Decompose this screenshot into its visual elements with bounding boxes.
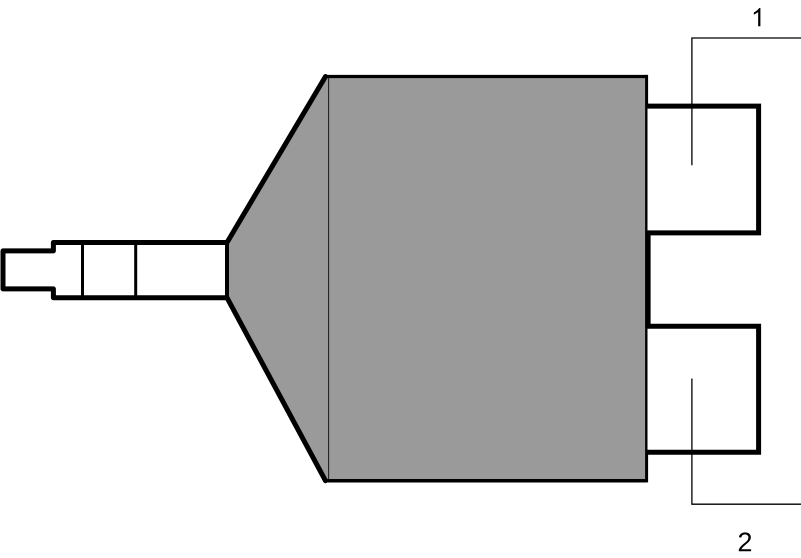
body right edge bbox=[645, 75, 648, 483]
plug divider ring 1 bbox=[81, 243, 84, 298]
body left edge (cone base) bbox=[225, 243, 229, 298]
notch edge between sockets bbox=[645, 231, 650, 327]
plug divider ring 2 bbox=[134, 243, 137, 298]
connector socket 2 (white box, open left side) bbox=[648, 326, 759, 452]
body top edge bbox=[325, 75, 647, 78]
thin seam line between cone and block bbox=[328, 78, 330, 479]
leader line 2 bbox=[692, 379, 801, 505]
label 2 bbox=[739, 532, 751, 551]
body lower slant edge bbox=[227, 298, 326, 481]
adapter body fill (trapezoid + rectangle) bbox=[227, 77, 647, 481]
connector socket 1 (white box, open left side) bbox=[648, 106, 759, 233]
label 1 bbox=[754, 8, 761, 26]
leader line 1 bbox=[692, 38, 801, 165]
body bottom edge bbox=[325, 479, 647, 483]
plug outline (3.5mm jack tip and barrel) bbox=[3, 243, 227, 298]
body upper slant edge bbox=[227, 77, 326, 243]
